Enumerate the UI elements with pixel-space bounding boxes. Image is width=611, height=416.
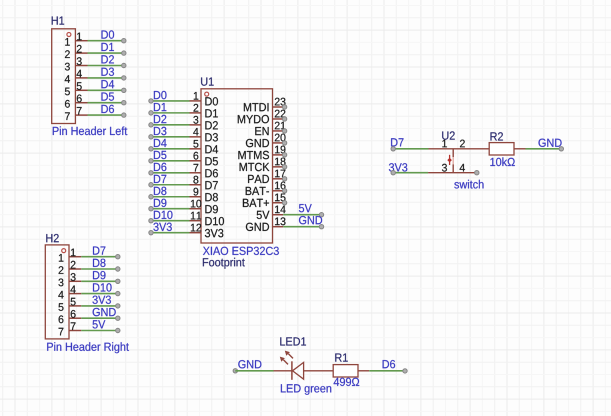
- wire net 3V3 to U1 pin 12: [151, 232, 190, 234]
- node unconnected U1 pin 16: [282, 189, 286, 193]
- net label D4: [102, 80, 115, 88]
- IC U1 body: [201, 89, 273, 243]
- U1 pin 10 (D9): [190, 200, 218, 214]
- U1 pin 15 (BAT+): [243, 194, 286, 207]
- IC U1 pin-1 marker circle: [205, 92, 209, 96]
- net label D6: [102, 105, 115, 113]
- U1 pin 17 (PAD): [248, 170, 285, 183]
- switch U2 pin numbers: [442, 140, 465, 172]
- resistor R2: [489, 143, 514, 155]
- connector H1 body: [52, 29, 76, 124]
- net label D9: [93, 271, 106, 279]
- text Footprint: [203, 258, 245, 269]
- wire net D6 from H1 pin 7: [88, 114, 123, 116]
- H1 pin 1: [65, 33, 87, 46]
- net label D7 at switch: [391, 138, 403, 146]
- LED LED1 symbol: [292, 361, 304, 380]
- wire net GND from R2: [526, 148, 560, 150]
- wire net D4 to U1 pin 5: [151, 148, 190, 150]
- wire net D1 to U1 pin 2: [151, 112, 190, 114]
- node D3 endpoint: [122, 76, 126, 80]
- net label D3: [102, 68, 115, 76]
- node D0 endpoint: [122, 39, 126, 43]
- node 3V3 endpoint at U1: [149, 230, 153, 234]
- wire LED anode to R1: [304, 370, 334, 372]
- node D6 endpoint: [403, 369, 407, 373]
- U1 pin 11 (D10): [190, 212, 225, 226]
- wire net D4 from H1 pin 5: [88, 89, 123, 91]
- net label D0 at U1: [154, 91, 167, 99]
- net label D7: [93, 247, 105, 255]
- node unconnected U1 pin 22: [282, 117, 286, 121]
- node D9 endpoint at U1: [149, 207, 153, 211]
- node GND endpoint at LED: [233, 369, 237, 373]
- wire net 5V from H2 pin 7: [81, 330, 116, 332]
- LED LED1 emission arrows: [280, 351, 293, 365]
- node D2 endpoint: [122, 63, 126, 67]
- H1 pin 2: [65, 45, 88, 58]
- node 3V3 endpoint: [116, 304, 120, 308]
- net label D5: [102, 93, 115, 101]
- H1 pin 5: [65, 82, 88, 95]
- wire net D3 to U1 pin 4: [151, 136, 190, 138]
- node D4 endpoint: [122, 88, 126, 92]
- U1 pin 8 (D7): [190, 176, 218, 190]
- wire net D8 from H2 pin 2: [81, 268, 116, 270]
- connector H2 pin-1 marker circle: [62, 249, 66, 253]
- node D6 endpoint: [122, 113, 126, 117]
- node D2 endpoint at U1: [149, 123, 153, 127]
- U1 pin 23 (MTDI): [244, 98, 286, 112]
- IC U1 name label: [201, 78, 214, 86]
- U1 pin 14 (5V): [257, 206, 286, 219]
- net label D6 at U1: [154, 163, 167, 171]
- net label D8 at U1: [154, 187, 167, 195]
- node D10 endpoint at U1: [149, 219, 153, 223]
- node D5 endpoint at U1: [149, 159, 153, 163]
- U1 pin 9 (D8): [190, 188, 218, 202]
- wire net D3 from H1 pin 4: [88, 77, 123, 79]
- wire net D10 to U1 pin 11: [151, 220, 190, 222]
- resistor R2 value label: [490, 157, 514, 166]
- switch U2 name label: [442, 131, 455, 139]
- node GND endpoint at R2: [559, 147, 563, 151]
- node D1 endpoint: [122, 51, 126, 55]
- wire net D5 to U1 pin 6: [151, 160, 190, 162]
- resistor R1 right pin: [358, 370, 369, 372]
- U1 pin 1 (D0): [190, 92, 219, 106]
- node D7 endpoint at U1: [149, 183, 153, 187]
- wire net D6 to U1 pin 7: [151, 172, 190, 174]
- net label D9 at U1: [154, 199, 167, 207]
- net label D3 at U1: [154, 127, 167, 135]
- wire net D7 from H2 pin 1: [81, 256, 116, 258]
- wire net D5 from H1 pin 6: [88, 102, 123, 104]
- node D8 endpoint at U1: [149, 195, 153, 199]
- connector H1 name label: [52, 17, 64, 25]
- H2 pin 5: [59, 298, 82, 311]
- U1 pin 22 (MYDO): [238, 110, 286, 124]
- wire net 5V from U1 pin 14: [283, 214, 320, 216]
- wire net 3V3 from H2 pin 5: [81, 305, 116, 307]
- node unconnected U1 pin 18: [282, 165, 286, 169]
- wire net 3V3 to switch pin 3: [393, 172, 428, 174]
- U1 pin 21 (EN): [255, 122, 285, 135]
- H1 pin 4: [65, 70, 88, 83]
- node unconnected U1 pin 20: [282, 141, 286, 145]
- wire net D1 from H1 pin 2: [88, 52, 123, 54]
- node D6 endpoint at U1: [149, 171, 153, 175]
- wire net GND to LED cathode: [235, 370, 273, 372]
- U1 pin 19 (MTMS): [238, 146, 285, 160]
- U1 pin 5 (D4): [190, 140, 219, 153]
- connector H1 value label: [53, 126, 128, 135]
- H2 pin 7: [59, 322, 82, 335]
- wire net D0 to U1 pin 1: [151, 100, 190, 102]
- node 5V endpoint: [116, 328, 120, 332]
- wire net GND from H2 pin 6: [81, 317, 116, 319]
- resistor R2 right pin: [514, 148, 526, 150]
- net label D2: [102, 55, 114, 63]
- wire net D7 to switch pin 1: [393, 148, 428, 150]
- net label D5 at U1: [154, 151, 167, 159]
- connector H2 name label: [46, 234, 58, 242]
- net label D6: [383, 360, 396, 368]
- node unconnected U1 pin 17: [282, 177, 286, 181]
- H2 pin 6: [59, 310, 82, 323]
- net label GND: [93, 308, 116, 316]
- net label GND at R2: [539, 139, 562, 147]
- node GND endpoint at U1 pin 13: [319, 225, 323, 229]
- wire net D0 from H1 pin 1: [88, 40, 123, 42]
- net label D10: [93, 283, 112, 291]
- node D0 endpoint at U1: [149, 99, 153, 103]
- U1 pin 12 (3V3): [190, 224, 224, 238]
- U1 pin 3 (D2): [190, 116, 218, 129]
- node D1 endpoint at U1: [149, 111, 153, 115]
- node unconnected U1 pin 23: [282, 105, 286, 109]
- H1 pin 6: [65, 95, 88, 108]
- node D9 endpoint: [116, 279, 120, 283]
- node D8 endpoint: [116, 267, 120, 271]
- wire net D10 from H2 pin 4: [81, 293, 116, 295]
- wire net D9 to U1 pin 10: [151, 208, 190, 210]
- U1 pin 18 (MTCK): [240, 158, 286, 172]
- node unconnected U1 pin 15: [282, 201, 286, 205]
- U1 pin 7 (D6): [190, 164, 218, 178]
- U1 pin 2 (D1): [190, 104, 218, 118]
- U1 pin 20 (GND): [246, 134, 286, 148]
- switch U2 actuator: [447, 155, 452, 165]
- H2 pin 1: [59, 249, 81, 262]
- net label D1: [102, 43, 114, 51]
- net label D7 at U1: [154, 175, 166, 183]
- U1 pin 13 (GND): [246, 217, 286, 231]
- net label D10 at U1: [154, 211, 173, 219]
- node D4 endpoint at U1: [149, 147, 153, 151]
- net label 5V: [93, 320, 106, 328]
- LED LED1 value label: [281, 384, 331, 395]
- connector H1 pin-1 marker circle: [67, 33, 71, 37]
- U1 pin 6 (D5): [190, 152, 218, 166]
- net label D4 at U1: [154, 139, 167, 147]
- net label 3V3 at switch: [389, 163, 407, 171]
- resistor R1 name label: [335, 354, 347, 362]
- resistor R1 value label: [334, 378, 360, 386]
- node D10 endpoint: [116, 291, 120, 295]
- net label D1 at U1: [154, 103, 166, 111]
- net label D8: [93, 259, 106, 267]
- wire net D6 from R1: [369, 370, 403, 372]
- resistor R1: [333, 365, 358, 377]
- H2 pin 4: [58, 286, 81, 299]
- wire net D2 from H1 pin 3: [88, 65, 123, 67]
- U1 pin 4 (D3): [190, 128, 218, 142]
- net label GND at U1 pin 13: [299, 216, 322, 224]
- H2 pin 3: [59, 273, 82, 286]
- LED1 cathode pin: [274, 370, 292, 372]
- U1 pin 16 (BAT-): [246, 182, 286, 196]
- H1 pin 3: [65, 57, 88, 70]
- wire net D7 to U1 pin 8: [151, 184, 190, 186]
- node unconnected switch pin 4: [475, 171, 479, 175]
- switch U2 value label: [454, 180, 483, 189]
- connector H2 body: [45, 245, 69, 339]
- node D7 endpoint: [116, 255, 120, 259]
- switch U2 body: [428, 149, 489, 173]
- wire net D2 to U1 pin 3: [151, 124, 190, 126]
- wire net GND from U1 pin 13: [283, 226, 320, 228]
- net label D2 at U1: [154, 115, 166, 123]
- LED LED1 name label: [280, 337, 306, 345]
- net label 5V at U1 pin 14: [299, 204, 312, 212]
- H2 pin 2: [59, 261, 82, 274]
- resistor R2 name label: [491, 132, 503, 140]
- wire net D9 from H2 pin 3: [81, 280, 116, 282]
- node D7 endpoint: [391, 147, 395, 151]
- IC U1 value label: [203, 247, 279, 255]
- node GND endpoint: [116, 316, 120, 320]
- node 3V3 endpoint: [391, 171, 395, 175]
- net label 3V3: [93, 296, 111, 304]
- node unconnected U1 pin 21: [282, 129, 286, 133]
- net label 3V3 at U1: [153, 223, 171, 231]
- node 5V endpoint at U1 pin 14: [319, 213, 323, 217]
- net label D0: [102, 30, 115, 38]
- net label GND at LED: [238, 360, 261, 368]
- node unconnected U1 pin 19: [282, 153, 286, 157]
- node D3 endpoint at U1: [149, 135, 153, 139]
- H1 pin 7: [65, 107, 88, 120]
- wire net D8 to U1 pin 9: [151, 196, 190, 198]
- connector H2 value label: [47, 342, 129, 353]
- node D5 endpoint: [122, 101, 126, 105]
